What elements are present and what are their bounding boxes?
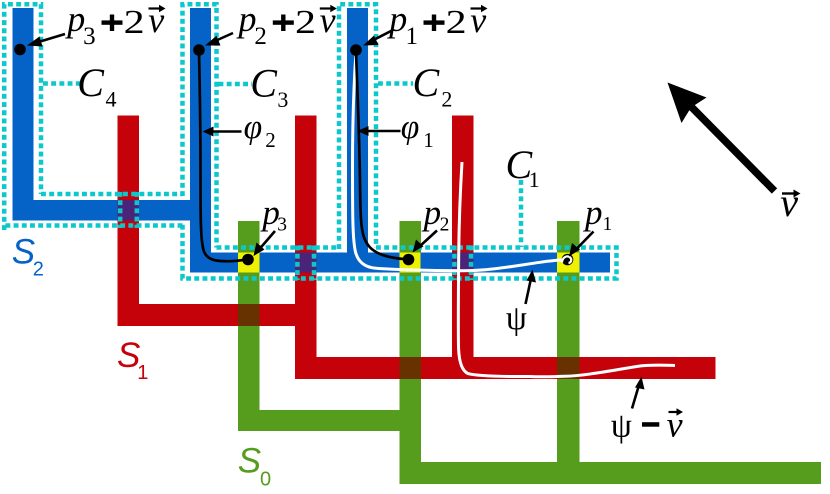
dashed line above blue bar 1: [41, 192, 183, 197]
svg-text:v: v: [320, 0, 336, 40]
svg-text:2: 2: [440, 215, 450, 236]
curve phi1 (black) from p1+2v to p2: [356, 52, 406, 259]
subscripts of S labels: [33, 258, 271, 490]
vector hat over label v: [782, 190, 801, 198]
svg-text:2: 2: [265, 128, 276, 152]
yellow highlight square at point p2: [400, 253, 421, 273]
svg-text:0: 0: [260, 468, 271, 490]
curve phi2 (black) from p2+2v to p3: [199, 52, 245, 261]
dot at point p3: [242, 254, 254, 266]
svg-text:C: C: [77, 60, 105, 105]
label S2: [12, 232, 261, 480]
leader to label C3: [219, 82, 253, 87]
annotation arrow to dot p2: [420, 231, 438, 247]
label p3+2v: [64, 0, 407, 39]
overlap square S1 x S2 at red prong C and blue bar 2: [452, 253, 474, 273]
dashed crossing mark right of purple square at red prong B: [312, 246, 317, 281]
set S0 green prong beta: [400, 221, 422, 484]
set S2 blue bar 1: [13, 200, 212, 221]
dot at point p1: [562, 254, 574, 266]
leader to label C2: [378, 81, 413, 86]
dashed crossing mark left of purple square at red prong B: [295, 246, 300, 281]
dashed crossing mark right of purple square on bar 1: [135, 192, 140, 228]
set S0 green bar 2: [400, 462, 822, 484]
svg-text:1: 1: [423, 128, 434, 152]
yellow highlight square at point p1: [557, 253, 580, 273]
vector v arrow: [668, 83, 775, 192]
svg-text:2: 2: [33, 258, 44, 280]
set S2 blue bar 2: [190, 253, 610, 273]
svg-text:p: p: [421, 193, 442, 232]
minus sign of psi minus v label: [642, 422, 659, 427]
annotation arrow to curve psi: [526, 279, 532, 305]
set S1 red prong B: [295, 116, 317, 380]
dot at point p2: [403, 254, 415, 266]
overlap square S1 x S2 at red prong A and blue bar 1: [118, 200, 140, 221]
set S2 blue prong 2: [190, 8, 211, 273]
dashed crossing mark left of purple square at red prong C: [452, 246, 457, 281]
label C4: [77, 60, 533, 187]
overlap square S0 x S1 at green prong alpha and red bar 1: [238, 304, 260, 326]
subscripts of phi labels: [265, 128, 434, 152]
svg-text:1: 1: [603, 214, 613, 235]
overlap square S0 x S1 at green prong beta and red bar 2: [400, 357, 422, 379]
subscripts of C labels: [106, 86, 540, 192]
svg-text:3: 3: [277, 215, 287, 236]
svg-text:1: 1: [137, 362, 148, 384]
white curl of psi at dot p1: [562, 256, 571, 263]
set S0 green bar 1: [238, 410, 421, 431]
svg-text:ψ: ψ: [611, 408, 632, 445]
annotation arrow to curve phi2: [212, 130, 242, 133]
vector hat over v of psi minus v label: [669, 408, 684, 415]
dashed crossing mark left of purple square on bar 1: [118, 192, 123, 228]
annotation arrow to dot p3: [260, 231, 276, 249]
set S2 blue prong 3: [347, 8, 368, 273]
annotation arrow to dot p3+2v: [36, 34, 65, 43]
annotation arrow to dot p1: [576, 232, 594, 251]
svg-text:2: 2: [254, 23, 267, 50]
overlap square S1 x S2 at red prong B and blue bar 2: [295, 253, 317, 273]
set S1 red prong A: [118, 116, 140, 327]
label phi2: [244, 109, 420, 146]
curve psi minus v (white): [458, 162, 675, 377]
svg-text:2: 2: [441, 86, 452, 111]
svg-text:S: S: [12, 232, 35, 271]
svg-text:p: p: [64, 0, 85, 39]
subscripts of p+2v labels: [83, 23, 418, 50]
set S0 green prong gamma: [557, 221, 580, 484]
dot at point p2+2v: [193, 44, 205, 56]
overlap square S0 x S1 at green prong gamma and red bar 2: [557, 357, 580, 379]
leader to label C4: [43, 81, 80, 86]
letter v of p+2v labels: [148, 0, 486, 40]
dashed line above blue bar 2 right span with right cap and below bar 2: [183, 224, 617, 279]
dot at point p1+2v: [350, 44, 362, 56]
set S2 blue prong 1: [13, 8, 34, 221]
dashed line above blue bar 2 left span: [217, 245, 340, 250]
annotation arrow to curve psi minus v: [632, 385, 639, 409]
leader to label C1: [519, 180, 524, 247]
svg-text:1: 1: [406, 23, 419, 50]
annotation arrow to curve phi1: [367, 130, 401, 133]
svg-text:1: 1: [529, 167, 540, 192]
dot at point p3+2v: [14, 44, 26, 56]
svg-text:C: C: [413, 60, 441, 105]
annotation arrow to dot p2+2v: [214, 33, 233, 42]
svg-text:v: v: [148, 0, 164, 40]
set S1 red bar 2: [295, 357, 716, 379]
svg-text:2: 2: [295, 4, 316, 41]
set S1 red prong C: [452, 116, 474, 380]
dashed outline around prong 2 of S2: [183, 4, 217, 247]
label p3: [259, 193, 602, 232]
svg-text:p: p: [386, 0, 407, 39]
svg-text:φ: φ: [401, 109, 420, 146]
svg-text:3: 3: [83, 23, 96, 50]
svg-text:2: 2: [124, 4, 145, 41]
dashed crossing mark right of purple square at red prong C: [469, 246, 474, 281]
svg-text:p: p: [236, 0, 257, 39]
plus signs of p+2v labels: [102, 15, 445, 32]
curve psi (white) from p1+2v to p1: [353, 52, 564, 271]
svg-text:p: p: [582, 193, 603, 232]
set S1 red bar 1: [118, 304, 317, 326]
svg-text:C: C: [250, 61, 278, 106]
dashed line below blue bar 1: [4, 223, 182, 228]
yellow highlight square at point p3: [238, 253, 260, 273]
svg-text:v: v: [470, 0, 486, 40]
svg-text:2: 2: [446, 4, 467, 41]
set S0 green prong alpha: [238, 221, 260, 431]
dashed outline around prong 1 of S2: [4, 4, 41, 230]
svg-text:S: S: [238, 442, 261, 481]
svg-text:3: 3: [277, 87, 288, 112]
svg-text:v: v: [780, 180, 798, 225]
digit 2 of p+2v labels: [124, 4, 467, 41]
svg-text:ψ: ψ: [506, 300, 527, 337]
annotation arrow to dot p1+2v: [372, 31, 393, 42]
svg-text:4: 4: [106, 86, 117, 111]
vector hats over v of p+2v labels: [149, 5, 488, 12]
subscripts of point labels: [277, 214, 612, 236]
svg-text:φ: φ: [244, 109, 263, 146]
dashed outline around prong 3 of S2: [339, 4, 376, 249]
